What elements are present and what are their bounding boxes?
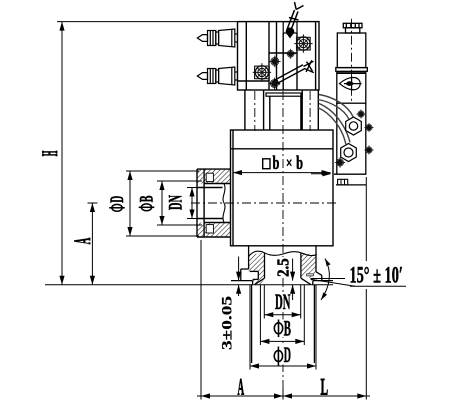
svg-text:H: H	[37, 151, 62, 157]
svg-text:D: D	[108, 196, 128, 203]
svg-text:15° ± 10′: 15° ± 10′	[349, 263, 403, 288]
svg-text:B: B	[138, 196, 158, 203]
svg-text:A: A	[238, 375, 245, 401]
svg-text:DN: DN	[275, 289, 291, 314]
svg-text:3±0.05: 3±0.05	[220, 296, 236, 350]
svg-text:D: D	[284, 342, 291, 367]
svg-text:A: A	[70, 238, 95, 245]
svg-text:b: b	[273, 153, 280, 174]
svg-text:2.5: 2.5	[273, 258, 292, 277]
svg-text:B: B	[284, 316, 291, 341]
svg-text:b: b	[296, 153, 303, 174]
svg-text:L: L	[321, 375, 329, 401]
svg-text:×: ×	[286, 155, 292, 172]
svg-text:DN: DN	[167, 195, 187, 210]
